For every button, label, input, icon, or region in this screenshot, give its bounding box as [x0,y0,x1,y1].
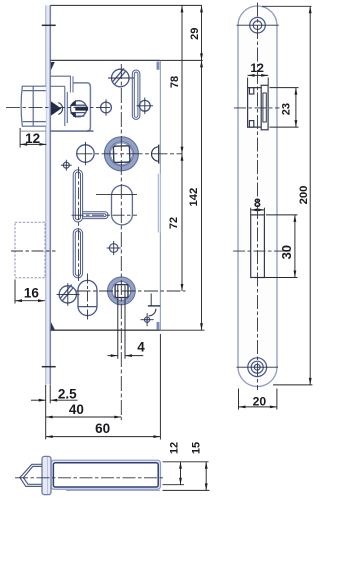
faceplate top screw (edge-on tick) [42,24,56,26]
dim 2.5: dim line + tails [31,399,78,401]
dim 2.5 arrows (outside) [39,399,58,402]
top screw crosshair [237,24,279,26]
dim 15: ext line [163,489,210,491]
dim 30: ext lines [255,215,298,278]
dim 12 latch: ext line [19,128,21,148]
ext line case bottom to dim lines [160,329,204,331]
latch guide lines behind faceplate [50,76,73,126]
guide circle left of spindle [77,142,94,165]
latch tail bar (dark section) [75,107,88,111]
stadium arc-center line top [96,193,137,195]
lever arm centerline [72,214,138,216]
spindle square hole 8mm [113,146,130,163]
arrows 200 [309,6,312,385]
dim 12 faceplate: dim line [248,74,269,76]
dim 60: dim line [46,436,161,438]
dim 23 arrows [295,88,298,128]
dim 16 arrows [15,299,45,302]
dim line 200 [309,6,311,385]
latch cutout opening [248,85,269,130]
faceplate bar (bottom view) [42,456,51,494]
svg-text:8: 8 [254,196,261,210]
fixing post top crosshair [108,77,134,79]
bottom-right small screw hole [141,313,154,326]
fixing post top (circle with slashes) [112,68,130,86]
svg-text:12: 12 [25,131,40,146]
dim 8 arrows [251,209,265,212]
case inner strip along right edge [158,174,160,233]
latch tip centerline [15,477,163,479]
dim 16: dim line [15,300,45,302]
slots centerline [78,167,80,281]
dim 12 faceplate arrows [248,74,269,77]
dim 12 bottom: dim line [180,462,182,485]
dim 23: ext lines [270,88,299,128]
vertical centerline of faceplate [257,3,259,391]
latch bolt head (protruding left) [21,86,46,126]
latch pin arc bulge [58,103,62,115]
bottom stadium vertical centerline [87,274,89,323]
dim 8: dim line [251,209,265,211]
svg-text:40: 40 [69,402,84,417]
ext line case top to dim lines [160,59,202,61]
follower hub stadium [112,185,133,225]
cover lip lines [66,489,160,491]
deadbolt cutout opening [251,215,265,278]
guide slot lower (in deadbolt) [73,229,82,278]
dim 15: dim line [205,462,207,491]
screw hole circle C (mid, below stadium) [107,241,121,255]
svg-text:2.5: 2.5 [58,387,77,402]
tiny cross hole [61,160,72,171]
faceplate (side view, edge-on strip) [46,5,51,384]
RIGHT FACEPLATE FRONT VIEW [233,3,291,391]
svg-text:4: 4 [137,340,145,355]
bottom screw hole [248,358,267,377]
spindle notch semicircle on right edge [152,145,159,164]
dim 30 arrows [294,215,297,278]
svg-text:23: 23 [281,103,293,115]
faceplate outline (rounded ends) [238,6,277,387]
BOTTOM VIEW [15,456,163,494]
faceplate bar inner line [47,457,49,494]
dim 2.5: ext lines [46,385,51,440]
dim 30: dim line [294,215,296,278]
dim line 29/142 [201,5,203,330]
fixing post bottom crosshair [57,283,80,306]
svg-text:30: 30 [279,245,294,259]
main vertical centerline [120,64,122,420]
lower follower centerline [77,290,186,292]
dim 4 arrows (outside) [111,354,132,357]
deadbolt thrown position (phantom outline) [15,222,45,277]
spindle horizontal centerline [77,153,182,155]
svg-text:20: 20 [253,394,267,408]
dim 60: ext line right [159,334,161,440]
arrows 29/142 [200,5,203,330]
lock case top edge [50,59,160,61]
svg-text:29: 29 [189,28,201,40]
faceplate bottom screw (edge-on tick) [42,366,56,368]
latch cam wedge bottom (dark) [70,113,76,118]
svg-text:15: 15 [190,442,202,454]
fixing post bottom (circle with slashes) [59,285,76,303]
ext line 200 bottom [273,384,312,386]
lever slot upper [73,170,82,222]
MAIN SIDE VIEW [15,5,160,384]
latch spring pin (dark triangle at faceplate) [51,101,61,115]
dim 4: ext lines [118,285,125,359]
latch spring bracket (rounded) [73,83,91,131]
cover-plate tab top-right (blue) [157,62,160,70]
deadbolt centerline (right view) [233,250,291,252]
arrows 78/72 [181,5,184,291]
cover-plate tab top-left (dark) [51,62,55,70]
CENTERLINES (main view) [6,64,186,420]
latch cam wedge top (dark) [70,100,76,106]
deadbolt centerline [11,250,56,252]
bottom stadium (lock stopper) [78,280,97,315]
screw hole circle B [137,98,154,115]
lock case bottom edge [50,329,160,331]
dim 15 arrows [205,462,208,491]
svg-text:16: 16 [24,286,40,301]
dim 12 latch: dim line [20,143,46,145]
dim 16: ext line [14,280,16,304]
curved slot upper right [132,70,140,119]
dim 4: dim line tails [108,355,144,357]
svg-text:60: 60 [95,421,110,436]
cover-plate tab bottom-left (dark) [51,322,55,330]
latch centerline (right view) [234,107,280,109]
dim 12 bottom: ext lines [163,462,209,485]
dim 40 arrows [46,416,122,419]
latch lower guide line [21,130,94,132]
DIMENSIONS [15,5,312,490]
lever arm horizontal [83,212,108,219]
latch centerline [6,107,113,109]
dim 60 arrows [46,435,161,438]
svg-text:142: 142 [188,188,200,207]
ext line right view top [262,5,312,7]
dim 20 arrows [239,406,277,409]
svg-text:72: 72 [168,217,180,229]
dim 12 faceplate: ext lines [248,78,269,88]
bottom screw crosshair [237,366,279,368]
dim 12 bottom arrows [179,462,182,485]
bottom-right corner plate edge [148,294,160,306]
dim 20: dim line [239,406,277,408]
spindle follower (thick ring) [104,137,138,171]
case outer outline [51,460,161,489]
screw hole circle A (latch area) [101,99,112,116]
WC follower square hole [115,285,128,298]
case inner outline (cover) [53,463,158,487]
svg-text:78: 78 [169,76,181,88]
lock case right edge [159,60,161,330]
ext line faceplate top [50,4,202,6]
latch spring circle [71,101,87,117]
cover-plate tab bottom-right (blue) [157,322,160,330]
svg-text:12: 12 [169,442,181,454]
dim 40: dim line [46,416,122,418]
dim 8: ext lines [251,208,265,215]
dim 23: dim line [295,88,297,128]
WC follower lower (thick ring) [108,277,136,305]
latch tip wedge (bottom view) [20,464,42,486]
top screw hole [250,17,266,33]
svg-text:200: 200 [298,186,310,205]
dim 20: ext lines [239,389,277,410]
bottom-right quarter arc [149,309,156,316]
dim 12 latch arrows [20,143,46,146]
svg-text:12: 12 [250,61,264,75]
dim line 78/72 [181,5,183,291]
